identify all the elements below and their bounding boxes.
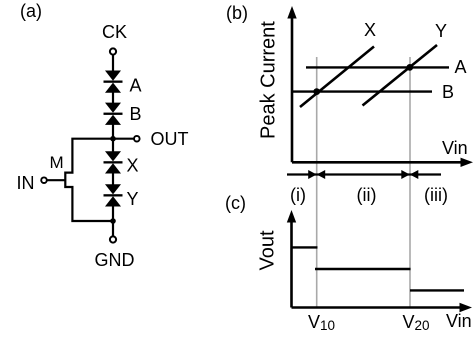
line X (diagonal) — [300, 47, 374, 108]
terminal IN — [41, 177, 47, 183]
RTD A — [104, 71, 123, 93]
guide line V20 (gray vertical) — [409, 57, 411, 308]
svg-text:A: A — [455, 57, 467, 77]
svg-text:(a): (a) — [20, 1, 42, 21]
svg-text:Y: Y — [127, 189, 139, 209]
graph c y-axis — [287, 210, 296, 308]
svg-text:(c): (c) — [225, 193, 246, 213]
graph b x-axis — [292, 158, 473, 167]
svg-text:A: A — [130, 76, 142, 96]
wire CK to RTD A — [112, 55, 114, 71]
RTD X — [104, 151, 123, 173]
interval arrowheads at V20 — [401, 170, 418, 179]
svg-text:(iii): (iii) — [424, 185, 448, 205]
svg-text:(i): (i) — [290, 185, 306, 205]
svg-text:Vin: Vin — [442, 138, 468, 158]
wire RTD A to RTD B — [112, 93, 114, 104]
svg-text:Y: Y — [435, 21, 447, 41]
svg-text:Vout: Vout — [257, 230, 279, 270]
terminal GND — [110, 236, 116, 242]
transistor M drain/source path — [65, 139, 113, 221]
graph c x-axis — [292, 303, 473, 312]
line Y (diagonal) — [363, 45, 438, 106]
Vout step level (i) — [292, 246, 318, 248]
node bottom junction dot — [110, 218, 116, 224]
svg-text:B: B — [130, 104, 142, 124]
svg-text:IN: IN — [17, 173, 35, 193]
operating point dot on B — [313, 88, 320, 95]
svg-text:X: X — [364, 20, 376, 40]
svg-text:CK: CK — [102, 22, 127, 42]
Vout step level (iii) — [410, 289, 464, 291]
interval arrowheads at V10 — [308, 170, 325, 179]
svg-text:(b): (b) — [226, 3, 248, 23]
operating point dot on A — [406, 64, 413, 71]
node OUT junction dot — [110, 136, 116, 142]
terminal CK — [110, 48, 116, 54]
wire RTD Y to bottom node — [112, 206, 114, 236]
svg-text:(ii): (ii) — [357, 185, 377, 205]
svg-text:Peak Current: Peak Current — [258, 21, 280, 139]
svg-text:X: X — [127, 156, 139, 176]
terminal OUT — [134, 136, 140, 142]
line A (horizontal) — [306, 66, 449, 68]
RTD B — [104, 103, 123, 125]
line B (horizontal) — [292, 90, 432, 92]
svg-text:OUT: OUT — [151, 129, 189, 149]
wire RTD B to OUT node — [112, 125, 114, 152]
wire RTD X to RTD Y — [112, 173, 114, 185]
transistor M gate wire — [47, 179, 66, 181]
Vout step level (ii) — [315, 268, 411, 270]
guide line V10 (gray vertical) — [316, 57, 318, 308]
RTD Y — [104, 184, 123, 206]
svg-text:GND: GND — [95, 250, 135, 270]
graph b y-axis — [287, 6, 296, 162]
interval span line — [287, 173, 441, 175]
svg-text:B: B — [442, 82, 454, 102]
wire OUT stub — [113, 138, 134, 140]
svg-text:Vin: Vin — [446, 311, 472, 331]
svg-text:M: M — [50, 153, 64, 172]
